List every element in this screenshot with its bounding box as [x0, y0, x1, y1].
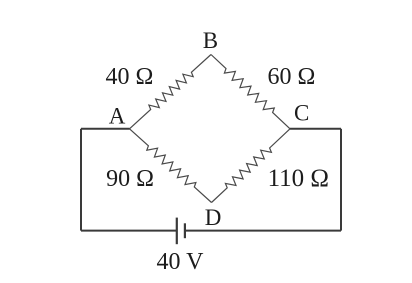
- wire: bottom left to battery: [81, 230, 177, 232]
- resistor 40 Ω (branch A-B): [130, 55, 212, 129]
- battery 40 V : short plate: [184, 223, 186, 238]
- svg-text:40 Ω: 40 Ω: [105, 64, 153, 90]
- wire: A to left edge: [81, 128, 130, 130]
- wire: battery to bottom right: [185, 230, 341, 232]
- svg-text:110 Ω: 110 Ω: [268, 165, 329, 192]
- resistor 90 Ω (branch A-D): [130, 129, 212, 203]
- resistor 110 Ω (branch D-C): [212, 129, 291, 203]
- svg-text:A: A: [109, 104, 126, 129]
- battery 40 V : long plate: [176, 218, 178, 245]
- wire: left edge down: [80, 129, 82, 231]
- svg-text:B: B: [203, 28, 218, 53]
- svg-text:60 Ω: 60 Ω: [267, 64, 315, 90]
- wire: right edge to C: [290, 128, 341, 130]
- wire: right edge up: [340, 129, 342, 231]
- svg-text:90 Ω: 90 Ω: [106, 166, 154, 192]
- svg-text:40 V: 40 V: [157, 249, 205, 275]
- svg-text:C: C: [294, 101, 309, 126]
- svg-text:D: D: [205, 205, 222, 230]
- resistor 60 Ω (branch B-C): [211, 55, 290, 129]
